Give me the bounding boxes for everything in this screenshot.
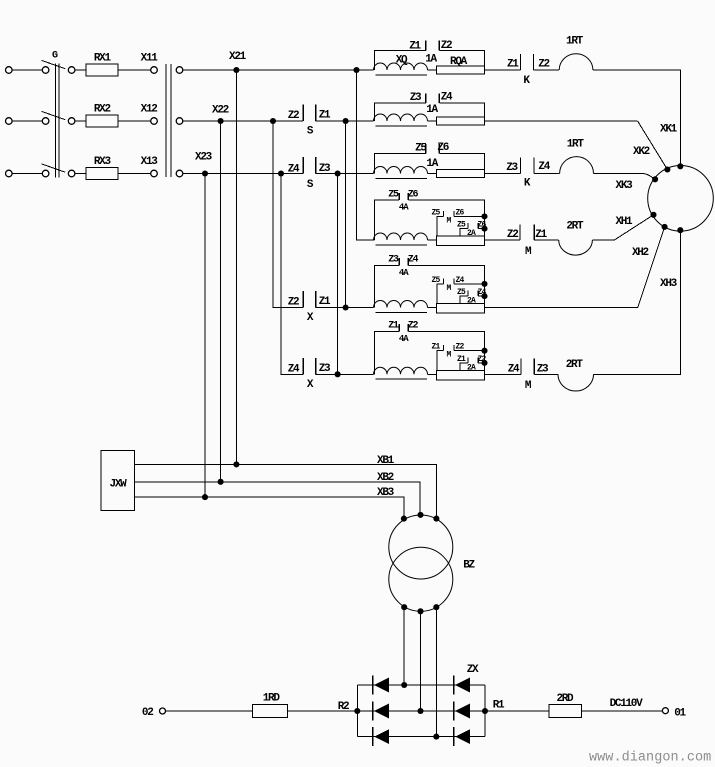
motor stator circle [648,166,714,232]
fuse 1A row B [436,117,484,125]
svg-text:XK1: XK1 [660,124,678,136]
wire row B right of connector [316,120,374,122]
svg-text:Z6: Z6 [437,142,448,154]
wire [288,710,358,712]
wire [118,120,151,122]
node row E bus junction [343,304,349,310]
svg-text:Z1: Z1 [388,321,399,332]
wire [428,120,437,122]
node rectifier middle [417,708,423,714]
switch G blade pole 1 [42,60,66,68]
terminal 02 [160,708,166,714]
node row B tap b [343,118,349,124]
terminal L2 input [6,118,13,125]
wire bus row A to row D [357,70,375,240]
wire row E [316,307,374,309]
svg-text:Z4: Z4 [288,164,300,176]
wire row B left [183,120,303,122]
diode D1 [373,676,390,695]
wire [534,69,560,71]
wire rectifier bottom [357,736,485,738]
wire [75,69,86,71]
thermal element 1RT row C [560,157,594,174]
fuse 2RD [549,704,582,717]
wire [428,307,437,309]
svg-text:Z6: Z6 [477,221,486,230]
wire bus row C to row F [337,174,339,375]
svg-text:BZ: BZ [463,559,475,571]
node XB2-X22 [218,479,224,485]
inductor XQ [374,63,428,75]
switch G blade pole 2 [42,111,66,119]
connector S contacts Z2-Z1 row B [303,105,316,122]
svg-text:XH1: XH1 [615,216,633,228]
node R2 [354,708,360,714]
svg-text:X21: X21 [229,51,247,63]
wire XB1 [135,464,437,518]
terminal X22 left [176,118,183,125]
wire XB2 [135,482,421,515]
connector X contacts Z4-Z3 row F [303,358,316,374]
wire [485,69,521,71]
svg-text:Z3: Z3 [537,363,549,375]
wire [582,710,663,712]
svg-text:Z2: Z2 [477,355,486,364]
wire [75,120,86,122]
connector K contacts Z1-Z2 row A [520,54,533,70]
svg-text:RQA: RQA [450,56,468,68]
node link level1 [481,281,487,287]
fuse 4A [436,370,484,380]
fuse RX3 [86,167,118,179]
wire BZ to rectifier b [420,611,422,711]
relay contact level2 [460,357,485,370]
terminal switch G pole 2 left [42,118,49,125]
terminal L1 input [6,67,13,74]
isolation barrier double line [166,64,171,177]
svg-text:Z4: Z4 [538,161,550,173]
node link level2 [481,360,487,366]
node XK1 [664,166,670,172]
wire [428,69,437,71]
diode D3 [373,727,390,746]
svg-text:www.diangon.com: www.diangon.com [589,750,711,765]
svg-text:XQ: XQ [396,55,408,67]
diode D6 [454,727,471,746]
wire [534,173,560,175]
svg-text:02: 02 [142,707,153,719]
svg-text:Z1: Z1 [319,296,331,308]
thermal element 2RT row F [558,374,594,391]
fuse 4A [436,236,484,246]
connector M contacts Z4-Z3 row F [521,359,534,375]
node row B tap a [270,118,276,124]
node XK3 [652,176,658,182]
svg-text:RX3: RX3 [94,156,112,168]
wire [485,307,638,309]
node XH2 [662,224,668,230]
terminal X11 [151,67,158,74]
svg-text:1RT: 1RT [566,36,584,48]
wire row E diagonal to motor XH [638,227,665,308]
relay contact level1 [437,278,485,303]
node row C tap a [278,170,284,176]
wire BZ to rectifier c [435,607,437,736]
node row F bus junction [335,371,341,377]
node X21 [233,67,239,73]
wire [428,173,437,175]
svg-text:R1: R1 [493,700,505,712]
terminal switch G pole 2 right [68,118,75,125]
plug link Z5-Z6 row C [374,144,484,174]
wire row A to motor top [593,70,680,166]
node BZ secondary a [401,604,407,610]
junction box JXW [101,451,135,511]
svg-text:Z1: Z1 [431,343,440,352]
wire row D diagonal to motor XH [614,215,653,240]
svg-text:Z6: Z6 [408,190,419,201]
wire [485,120,638,122]
svg-text:Z3: Z3 [506,162,518,174]
svg-text:Z5: Z5 [415,142,427,154]
plug link Z1-Z2 [374,324,484,374]
rectifier bridge right rail [484,685,486,737]
wire bus X22 vertical [220,121,222,482]
relay contact level2 [460,223,485,236]
node XH1 [650,212,656,218]
svg-text:Z5: Z5 [457,288,466,297]
svg-text:Z2: Z2 [288,110,299,122]
wire [166,710,253,712]
fuse 1RD [253,704,288,717]
switch G linkage bars [55,64,59,178]
wire [118,69,151,71]
inductor [374,301,428,313]
wire bus row B tap to row E connector [273,121,303,308]
wire [534,373,558,375]
connector X contacts Z2-Z1 row E [303,291,316,308]
switch G blade pole 3 [42,164,66,172]
terminal X23 left [176,170,183,177]
wire [592,239,614,241]
svg-text:2RT: 2RT [566,221,584,233]
wire [485,710,549,712]
node motor top [677,163,683,169]
diode D2 [373,702,390,721]
wire [485,173,521,175]
svg-text:XH2: XH2 [632,247,649,259]
svg-text:Z5: Z5 [431,276,440,285]
wire BZ to rectifier a [403,607,405,685]
svg-text:X12: X12 [141,104,158,116]
fuse RX2 [86,115,118,127]
wire row C left [183,173,303,175]
diode D4 [454,676,471,695]
svg-text:XB1: XB1 [377,455,395,467]
node row A bus tap [353,67,359,73]
plug link Z3-Z4 row B [374,93,484,121]
node XB1-X21 [233,461,239,467]
wire [428,373,437,375]
svg-text:1RT: 1RT [567,139,585,151]
svg-text:2RT: 2RT [566,359,584,371]
node row C tap b [335,170,341,176]
transformer BZ primary circle [389,515,453,579]
node link level1 [481,348,487,354]
svg-text:XK3: XK3 [616,180,634,192]
relay contact level1 [437,211,485,236]
plug link Z1-Z2 over XQ [374,41,484,70]
svg-text:Z2: Z2 [507,229,518,241]
wire XB3 [135,497,404,519]
thermal element 2RT row D [559,240,593,255]
connector S contacts Z4-Z3 row C [303,157,316,174]
svg-text:1A: 1A [426,158,438,170]
svg-text:01: 01 [674,708,686,720]
fuse RQA 1A [436,66,484,74]
node rectifier top [401,682,407,688]
fuse 4A [436,304,484,314]
wire rectifier middle [357,710,485,712]
node R1 [482,708,488,714]
thermal element 1RT row A [559,54,593,70]
wire row F [316,373,374,375]
terminal switch G pole 1 left [42,67,49,74]
plug link Z3-Z4 [374,258,484,307]
svg-text:Z4: Z4 [441,92,453,104]
svg-text:2RD: 2RD [556,693,574,705]
svg-text:XB2: XB2 [377,472,394,484]
svg-text:Z4: Z4 [508,363,520,375]
node BZ primary a [401,516,407,522]
wire row C lead-in curve [642,174,655,180]
svg-text:XK2: XK2 [633,146,650,158]
wire [12,173,42,175]
inductor [374,114,428,126]
connector M contacts Z2-Z1 row D [520,224,534,240]
inductor [374,233,428,245]
svg-text:Z2: Z2 [441,40,452,52]
svg-text:Z2: Z2 [538,58,549,70]
terminal switch G pole 3 left [42,170,49,177]
wire bus X21 vertical [235,70,237,464]
svg-text:1A: 1A [426,104,438,116]
svg-text:Z6: Z6 [455,208,464,217]
wire [534,239,559,241]
wire [428,239,437,241]
terminal switch G pole 1 right [68,67,75,74]
node BZ secondary b [417,608,423,614]
svg-text:X22: X22 [212,105,229,117]
svg-text:1RD: 1RD [263,693,281,705]
relay contact level2 [460,291,485,304]
wire [485,373,522,375]
svg-text:Z4: Z4 [288,364,300,376]
node BZ secondary c [433,604,439,610]
wire [12,69,42,71]
fuse RX1 [86,64,118,76]
diode D5 [454,702,471,721]
node motor bottom [677,227,683,233]
wire bus row C tap to row F connector [281,174,303,375]
node BZ primary b [417,512,423,518]
node X23 [202,170,208,176]
node rectifier bottom [433,734,439,740]
svg-text:RX2: RX2 [94,104,111,116]
svg-text:JXW: JXW [110,478,128,490]
svg-text:Z2: Z2 [408,321,419,332]
svg-text:Z1: Z1 [457,355,466,364]
wire bus row B to row E [345,121,347,308]
terminal X13 [151,170,158,177]
svg-text:Z5: Z5 [388,190,399,201]
wire row B diagonal to motor XK [638,121,668,170]
svg-text:XH3: XH3 [660,278,678,290]
svg-text:DC110V: DC110V [610,698,644,710]
svg-text:Z2: Z2 [455,343,464,352]
svg-text:XB3: XB3 [377,487,395,499]
node link level2 [481,293,487,299]
wire row C to motor [594,173,643,175]
wire [485,239,520,241]
terminal L3 input [6,170,13,177]
svg-text:Z1: Z1 [535,229,547,241]
wire [75,173,86,175]
wire bus X23 vertical [204,174,206,498]
node XB3-X23 [202,494,208,500]
svg-text:2A: 2A [467,297,476,306]
node BZ primary c [433,516,439,522]
wire row F to motor bottom [594,231,681,374]
svg-text:Z4: Z4 [455,276,464,285]
terminal switch G pole 3 right [68,170,75,177]
svg-text:1A: 1A [425,54,437,66]
svg-text:RX1: RX1 [94,53,112,65]
node X22 [218,118,224,124]
svg-text:2A: 2A [467,229,476,238]
node link level1 [481,213,487,219]
svg-text:2A: 2A [467,363,476,372]
fuse 1A row C [436,169,484,177]
svg-text:G: G [52,51,58,62]
terminal X21 left [176,67,183,74]
svg-text:Z5: Z5 [431,208,440,217]
inductor [374,167,428,179]
plug link Z5-Z6 [374,193,484,240]
svg-text:Z3: Z3 [388,255,399,266]
relay contact level1 [437,345,485,370]
terminal 01 [662,708,668,714]
svg-text:Z2: Z2 [288,297,299,309]
wire rectifier top [357,684,485,686]
svg-text:Z3: Z3 [410,92,422,104]
node link level2 [481,226,487,232]
inductor [374,367,428,379]
wire row A from X21 terminal to inductor XQ [183,69,374,71]
rectifier bridge left rail [356,685,358,737]
svg-text:Z3: Z3 [319,363,331,375]
wire row C right of connector [316,173,374,175]
transformer BZ secondary circle [389,547,453,611]
wire [118,173,151,175]
svg-text:ZX: ZX [467,664,479,676]
svg-text:X11: X11 [141,53,159,65]
wire [12,120,42,122]
svg-text:X13: X13 [141,156,159,168]
svg-text:Z4: Z4 [408,255,419,266]
connector K contacts Z3-Z4 row C [520,158,534,174]
svg-text:Z5: Z5 [457,221,466,230]
svg-text:Z4: Z4 [477,288,486,297]
svg-text:Z1: Z1 [319,110,331,122]
svg-text:Z1: Z1 [507,58,519,70]
terminal X12 [151,118,158,125]
svg-text:X23: X23 [195,152,213,164]
svg-text:Z1: Z1 [409,41,421,53]
